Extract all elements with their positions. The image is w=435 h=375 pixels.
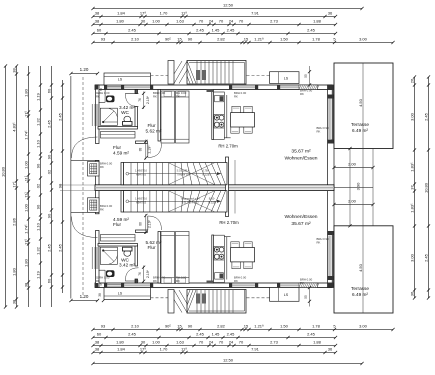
kitchen west wall upper bbox=[212, 90, 214, 140]
dining chairs lower bbox=[232, 262, 240, 269]
toilet lower bbox=[124, 250, 131, 256]
svg-text:3.90: 3.90 bbox=[356, 182, 361, 191]
svg-text:38: 38 bbox=[95, 11, 100, 16]
svg-text:3.00: 3.00 bbox=[410, 112, 415, 121]
svg-text:24: 24 bbox=[209, 340, 214, 345]
left wall window frame upper bbox=[91, 104, 93, 126]
svg-text:Flur: Flur bbox=[113, 222, 122, 227]
right dimension column: 26 3.00 1.83 37 1.83 3.00 36 bbox=[414, 77, 416, 298]
svg-text:RK: RK bbox=[96, 94, 100, 98]
svg-text:HB47/53: HB47/53 bbox=[136, 173, 147, 177]
svg-text:60: 60 bbox=[47, 88, 52, 93]
svg-text:70: 70 bbox=[239, 340, 244, 345]
svg-text:1.20: 1.20 bbox=[80, 294, 89, 299]
svg-text:RH 2.70m: RH 2.70m bbox=[219, 220, 239, 225]
svg-text:11¹: 11¹ bbox=[24, 175, 29, 181]
svg-text:4.83⁵: 4.83⁵ bbox=[12, 122, 17, 132]
svg-text:90: 90 bbox=[58, 183, 63, 188]
svg-text:90: 90 bbox=[47, 154, 52, 159]
svg-text:10.80: 10.80 bbox=[424, 182, 429, 193]
terrace lower bbox=[334, 226, 393, 313]
svg-text:1.45: 1.45 bbox=[212, 28, 221, 33]
svg-text:2.45: 2.45 bbox=[424, 253, 429, 262]
top wall pier C bbox=[150, 85, 153, 90]
svg-text:5.62 m²: 5.62 m² bbox=[146, 129, 162, 134]
dashed boundary line (left strip) bbox=[82, 77, 84, 298]
svg-text:15: 15 bbox=[244, 37, 249, 42]
dim 55 bottom-right bbox=[309, 288, 311, 307]
svg-text:90⁵: 90⁵ bbox=[165, 324, 171, 329]
left dimension column 10.80 overall bbox=[5, 66, 7, 307]
left wall hatched window box upper bbox=[88, 162, 100, 177]
alcove box top-right bbox=[270, 72, 299, 84]
left wall window glazing upper bbox=[96, 104, 98, 126]
svg-text:65: 65 bbox=[99, 282, 103, 286]
svg-text:17¹: 17¹ bbox=[24, 238, 29, 244]
svg-text:RK: RK bbox=[100, 165, 104, 169]
washbasin lower bbox=[106, 270, 115, 277]
party wall axis extension left bbox=[60, 184, 95, 186]
svg-text:93: 93 bbox=[101, 324, 106, 329]
right dimension column: 2.45 10.80 2.45 bbox=[428, 77, 430, 298]
alcove box bottom-right bbox=[270, 288, 299, 302]
left exterior wall lower segment bbox=[96, 231, 100, 288]
left exterior wall middle segment bbox=[96, 161, 100, 214]
WC south wall upper bbox=[98, 127, 138, 130]
svg-text:60: 60 bbox=[97, 332, 102, 337]
left dimension column 4: 1.19 1.32 1.10 90 02 ... bbox=[40, 66, 42, 307]
outside stair post top bbox=[168, 61, 174, 85]
kitchen counter upper bbox=[214, 92, 225, 139]
svg-text:1.21⁸: 1.21⁸ bbox=[254, 37, 264, 42]
svg-text:88: 88 bbox=[139, 222, 143, 226]
svg-text:90: 90 bbox=[47, 213, 52, 218]
svg-text:Wohnen/Essen: Wohnen/Essen bbox=[284, 214, 317, 220]
svg-text:2.45: 2.45 bbox=[58, 112, 63, 121]
svg-text:1.20: 1.20 bbox=[80, 67, 89, 72]
svg-text:2.45: 2.45 bbox=[196, 28, 205, 33]
bottom wall pier A bbox=[104, 283, 107, 288]
svg-text:B.02⁵: B.02⁵ bbox=[209, 197, 215, 201]
dim 55 top-right bbox=[309, 66, 311, 85]
svg-text:1.19: 1.19 bbox=[36, 92, 41, 101]
svg-text:6.49 m²: 6.49 m² bbox=[352, 292, 368, 297]
dimension row C' (bottom): 38 1.80 30 1.00 1.63 70 24 70 24 70 2.73 1.88 bbox=[93, 345, 336, 347]
WC door lower bbox=[125, 280, 138, 282]
svg-text:LS: LS bbox=[284, 77, 289, 81]
svg-text:17⁸: 17⁸ bbox=[140, 11, 146, 16]
top wall pier D bbox=[229, 85, 232, 90]
kitchen sink upper bbox=[215, 95, 224, 101]
svg-text:1.HBST16: 1.HBST16 bbox=[135, 197, 148, 201]
svg-text:1.50: 1.50 bbox=[280, 324, 289, 329]
corridor east wall upper bbox=[158, 90, 161, 142]
svg-text:1.70: 1.70 bbox=[160, 347, 169, 352]
svg-text:2.19⁵: 2.19⁵ bbox=[146, 269, 150, 278]
svg-text:88: 88 bbox=[139, 148, 143, 152]
washbasin niche wall upper bbox=[104, 90, 106, 103]
corridor east wall lower bbox=[158, 232, 161, 284]
svg-text:30: 30 bbox=[141, 340, 146, 345]
entry door arc lower bbox=[72, 217, 98, 238]
svg-text:76: 76 bbox=[138, 98, 142, 102]
svg-text:B.32B: B.32B bbox=[202, 173, 209, 177]
svg-text:11⁸: 11⁸ bbox=[181, 11, 187, 16]
top wall entrance door section bbox=[107, 86, 121, 88]
svg-text:2.45: 2.45 bbox=[227, 332, 236, 337]
left dimension column 3: 1.80 17 1.74 1.00 11 ... 38 bbox=[28, 66, 30, 307]
svg-text:38: 38 bbox=[12, 299, 17, 304]
wardrobe b lower bbox=[176, 232, 190, 284]
svg-text:RK: RK bbox=[153, 279, 157, 283]
svg-text:10.80: 10.80 bbox=[1, 166, 6, 177]
svg-text:2.45: 2.45 bbox=[307, 28, 316, 33]
bottom wall pier B bbox=[121, 283, 124, 288]
stair landing rail upper bbox=[234, 160, 236, 185]
svg-text:1.88: 1.88 bbox=[313, 19, 322, 24]
top wall window 2 bbox=[232, 86, 255, 88]
top wall pier A bbox=[104, 85, 107, 90]
svg-text:2.00: 2.00 bbox=[348, 162, 357, 167]
corridor south wall upper bbox=[136, 141, 148, 144]
svg-text:02: 02 bbox=[36, 183, 41, 188]
WC east wall lower bbox=[135, 246, 138, 267]
left wall hatched window box lower bbox=[88, 198, 100, 213]
garden boundary mid line bbox=[334, 187, 373, 189]
shower lower bbox=[100, 247, 117, 264]
hall closet lower bbox=[101, 235, 136, 242]
washbasin niche wall lower bbox=[104, 270, 106, 283]
wardrobe b upper bbox=[176, 91, 190, 143]
svg-text:55: 55 bbox=[304, 74, 308, 78]
svg-text:1.00: 1.00 bbox=[152, 19, 161, 24]
dimension row total width 12.50 (bottom) bbox=[93, 363, 362, 365]
svg-text:LS: LS bbox=[118, 292, 123, 296]
dimension row D' (bottom): 60 2.45 2.45 1.45 2.45 2.45 bbox=[93, 337, 336, 339]
dashed overhang line top b bbox=[247, 75, 270, 77]
svg-text:2.45: 2.45 bbox=[58, 243, 63, 252]
svg-text:15: 15 bbox=[177, 37, 182, 42]
svg-text:7.91: 7.91 bbox=[251, 11, 260, 16]
bottom wall entrance door section bbox=[107, 284, 121, 286]
svg-text:17⁵: 17⁵ bbox=[12, 181, 17, 187]
WC north wall lower bbox=[98, 244, 138, 247]
svg-text:Flur: Flur bbox=[113, 145, 122, 150]
svg-text:3.00: 3.00 bbox=[359, 37, 368, 42]
interior dim corridor door lower bbox=[145, 214, 147, 234]
svg-text:RK: RK bbox=[300, 92, 304, 96]
corridor door lower bbox=[147, 216, 149, 230]
svg-text:11¹: 11¹ bbox=[24, 192, 29, 198]
left dimension column 6: 2.45 2.45 bbox=[62, 80, 64, 293]
right wall pier hatch upper a bbox=[328, 95, 335, 99]
svg-text:1.80: 1.80 bbox=[116, 19, 125, 24]
bottom wall hatched section bbox=[299, 283, 318, 288]
svg-text:WC: WC bbox=[121, 257, 129, 262]
terrace upper bbox=[334, 63, 393, 149]
svg-text:Treppenlauf s.§4: Treppenlauf s.§4 bbox=[180, 197, 200, 201]
dimension row B' (bottom): 38 1.84 17_8 1.70 11_8 7.91 36 bbox=[93, 352, 336, 354]
bottom wall pier C bbox=[150, 283, 153, 288]
svg-text:35.67 m²: 35.67 m² bbox=[291, 221, 311, 227]
right wall glazing upper bbox=[328, 98, 331, 140]
svg-text:HB47/53: HB47/53 bbox=[136, 201, 147, 205]
svg-text:36: 36 bbox=[328, 11, 333, 16]
svg-text:1.80: 1.80 bbox=[12, 267, 17, 276]
garden dim line 2.00 lower bbox=[334, 204, 373, 206]
svg-text:LS: LS bbox=[118, 78, 123, 82]
bottom wall window 1 bbox=[125, 284, 151, 286]
svg-text:26: 26 bbox=[410, 78, 415, 83]
svg-text:3.00: 3.00 bbox=[410, 253, 415, 262]
stair west wall lower bbox=[121, 191, 124, 212]
svg-text:38: 38 bbox=[24, 282, 29, 287]
svg-text:90⁵: 90⁵ bbox=[165, 37, 171, 42]
svg-text:2.19⁵: 2.19⁵ bbox=[148, 219, 152, 228]
svg-text:02: 02 bbox=[47, 169, 52, 174]
dining table upper bbox=[231, 113, 255, 127]
right wall glazing lower bbox=[328, 236, 331, 278]
svg-text:RK: RK bbox=[234, 279, 238, 283]
left exterior wall upper segment bbox=[96, 85, 100, 144]
svg-text:1.84: 1.84 bbox=[117, 11, 126, 16]
svg-text:LS: LS bbox=[284, 293, 289, 297]
dimension row E' (bottom): 93 2.10 90_5 15 90 2.82 15 1.21_8 1.50 1.78 5 3.00 bbox=[93, 329, 393, 331]
boundary gray line (left strip) bbox=[70, 76, 72, 299]
svg-text:2.86: 2.86 bbox=[12, 217, 17, 226]
svg-text:1.45: 1.45 bbox=[212, 332, 221, 337]
svg-text:RK: RK bbox=[234, 94, 238, 98]
outside stair risers top bbox=[196, 61, 198, 84]
svg-text:35.67 m²: 35.67 m² bbox=[291, 148, 311, 154]
svg-text:2.19⁵: 2.19⁵ bbox=[148, 145, 152, 154]
svg-text:1.50: 1.50 bbox=[280, 37, 289, 42]
wardrobe a upper bbox=[161, 91, 175, 143]
svg-text:Terrasse: Terrasse bbox=[351, 286, 369, 291]
svg-text:WC: WC bbox=[121, 110, 129, 115]
entry threshold upper bbox=[71, 159, 99, 161]
left wall window glazing lower bbox=[96, 247, 98, 269]
washbasin upper bbox=[106, 96, 115, 103]
svg-text:Treppe 14: Treppe 14 bbox=[177, 173, 189, 177]
garden dim line 2.00 upper bbox=[334, 167, 373, 169]
svg-text:7.91: 7.91 bbox=[251, 347, 260, 352]
svg-text:Flur: Flur bbox=[147, 245, 156, 250]
svg-text:1.74⁵: 1.74⁵ bbox=[24, 224, 29, 234]
svg-text:1.80: 1.80 bbox=[24, 258, 29, 267]
svg-text:38: 38 bbox=[12, 68, 17, 73]
svg-text:1.32: 1.32 bbox=[36, 117, 41, 126]
svg-text:1.63: 1.63 bbox=[176, 340, 185, 345]
svg-text:RK: RK bbox=[317, 240, 321, 244]
svg-text:60: 60 bbox=[97, 28, 102, 33]
svg-text:90: 90 bbox=[188, 324, 193, 329]
svg-text:Wohnen/Essen: Wohnen/Essen bbox=[284, 156, 317, 162]
svg-text:2.45: 2.45 bbox=[128, 332, 137, 337]
top wall pier B bbox=[121, 85, 124, 90]
top wall corner block R bbox=[328, 85, 335, 90]
svg-text:1.10: 1.10 bbox=[36, 139, 41, 148]
top wall pier E bbox=[255, 85, 258, 90]
kitchen west wall lower bbox=[212, 235, 214, 283]
svg-text:3.00: 3.00 bbox=[359, 324, 368, 329]
top wall window 1 bbox=[125, 86, 151, 88]
svg-text:2.45: 2.45 bbox=[227, 28, 236, 33]
interior dim WC door upper bbox=[143, 92, 145, 110]
WC door upper bbox=[125, 93, 138, 95]
bottom wall pier D bbox=[229, 283, 232, 288]
shower upper bbox=[100, 108, 117, 125]
svg-text:2.82: 2.82 bbox=[217, 324, 226, 329]
entrance alcove box bottom-left bbox=[104, 288, 151, 300]
entry door arc upper bbox=[72, 137, 98, 158]
kitchen hob upper bbox=[214, 115, 224, 129]
svg-text:2.19⁵: 2.19⁵ bbox=[146, 95, 150, 104]
svg-text:12.50: 12.50 bbox=[223, 3, 234, 8]
svg-text:1.10: 1.10 bbox=[36, 222, 41, 231]
svg-text:3.42 m²: 3.42 m² bbox=[119, 263, 135, 268]
svg-text:2.73: 2.73 bbox=[270, 340, 279, 345]
bottom wall corner L bbox=[95, 283, 98, 288]
svg-text:37: 37 bbox=[410, 185, 415, 190]
svg-text:1.32: 1.32 bbox=[36, 246, 41, 255]
dashed overhang line bottom b bbox=[247, 297, 270, 299]
svg-text:17⁸: 17⁸ bbox=[140, 347, 146, 352]
svg-text:4.59 m²: 4.59 m² bbox=[113, 150, 129, 155]
svg-text:70: 70 bbox=[219, 19, 224, 24]
party wall bbox=[95, 185, 334, 191]
svg-text:1.HBST16: 1.HBST16 bbox=[135, 169, 148, 173]
svg-text:2.45: 2.45 bbox=[307, 332, 316, 337]
svg-text:B.32B: B.32B bbox=[208, 201, 215, 205]
interior dim corridor door upper bbox=[145, 140, 147, 160]
svg-text:38: 38 bbox=[98, 293, 102, 297]
dimension row B (top): 38 1.84 17_8 1.70 11_8 7.91 36 bbox=[93, 16, 336, 18]
svg-text:1.19: 1.19 bbox=[36, 270, 41, 279]
svg-text:65: 65 bbox=[99, 88, 103, 92]
svg-text:70: 70 bbox=[199, 340, 204, 345]
svg-text:24: 24 bbox=[229, 19, 234, 24]
svg-text:15: 15 bbox=[177, 324, 182, 329]
svg-text:Terrasse: Terrasse bbox=[351, 122, 369, 127]
stair east wall stub bbox=[226, 157, 229, 217]
svg-text:1.88: 1.88 bbox=[313, 340, 322, 345]
svg-text:1.00: 1.00 bbox=[152, 340, 161, 345]
wardrobe a lower bbox=[161, 232, 175, 284]
svg-text:17B⁵: 17B⁵ bbox=[203, 169, 209, 173]
svg-text:11⁸: 11⁸ bbox=[181, 347, 187, 352]
svg-text:2.45: 2.45 bbox=[47, 119, 52, 128]
svg-text:38: 38 bbox=[95, 347, 100, 352]
kitchen counter lower bbox=[214, 235, 225, 282]
svg-text:S.01 10B.4: S.01 10B.4 bbox=[177, 169, 190, 173]
svg-text:RK: RK bbox=[96, 279, 100, 283]
bottom wall window 3 bbox=[280, 284, 299, 286]
svg-text:1.84: 1.84 bbox=[117, 347, 126, 352]
toilet upper bbox=[124, 116, 131, 122]
svg-text:60: 60 bbox=[47, 278, 52, 283]
terrace center line bbox=[362, 63, 364, 313]
left wall window frame lower bbox=[91, 247, 93, 269]
svg-text:70: 70 bbox=[219, 340, 224, 345]
svg-text:1.80: 1.80 bbox=[24, 88, 29, 97]
svg-text:Flur: Flur bbox=[147, 123, 156, 128]
svg-text:1.80: 1.80 bbox=[116, 340, 125, 345]
interior dim WC door lower bbox=[143, 266, 145, 284]
svg-text:2.00: 2.00 bbox=[348, 199, 357, 204]
top exterior wall bbox=[95, 85, 332, 90]
svg-text:2.45: 2.45 bbox=[128, 28, 137, 33]
right wall pier hatch lower b bbox=[328, 276, 335, 280]
right exterior wall bbox=[328, 85, 335, 288]
svg-text:RK: RK bbox=[176, 94, 180, 98]
stair landing rail lower bbox=[234, 191, 236, 214]
svg-text:76: 76 bbox=[138, 272, 142, 276]
top wall pier F bbox=[277, 85, 280, 90]
bottom wall corner block R bbox=[328, 283, 335, 288]
stair west wall upper bbox=[121, 163, 124, 185]
right wall dark band upper bbox=[332, 89, 334, 144]
svg-text:90: 90 bbox=[188, 37, 193, 42]
dashed overhang line top a bbox=[151, 75, 169, 77]
svg-text:15: 15 bbox=[244, 324, 249, 329]
svg-text:24: 24 bbox=[229, 340, 234, 345]
svg-text:93: 93 bbox=[101, 37, 106, 42]
outside stair post bottom bbox=[168, 290, 174, 314]
svg-text:2.73: 2.73 bbox=[270, 19, 279, 24]
WC east wall upper bbox=[135, 107, 138, 128]
svg-text:38: 38 bbox=[95, 19, 100, 24]
svg-text:30: 30 bbox=[141, 19, 146, 24]
svg-text:1.83⁵: 1.83⁵ bbox=[410, 162, 415, 172]
garden vertical dim 3.90 bbox=[349, 149, 351, 226]
outside stair box top bbox=[187, 61, 246, 85]
svg-text:90: 90 bbox=[36, 204, 41, 209]
garden vertical edge line bbox=[372, 149, 374, 226]
hall closet upper bbox=[101, 132, 136, 139]
svg-text:1.78: 1.78 bbox=[312, 324, 321, 329]
kitchen east divider lower bbox=[226, 237, 228, 280]
svg-text:4.50: 4.50 bbox=[358, 263, 363, 272]
right wall pier hatch lower a bbox=[328, 231, 335, 235]
dimension row E (top): 93 2.10 90_5 15 90 2.82 15 1.21_8 1.50 1.78 5 3.00 bbox=[93, 42, 393, 44]
svg-text:24: 24 bbox=[209, 19, 214, 24]
outside stair box bottom bbox=[187, 290, 246, 314]
svg-text:2.82: 2.82 bbox=[217, 37, 226, 42]
svg-text:4.50: 4.50 bbox=[358, 98, 363, 107]
svg-text:RK: RK bbox=[300, 281, 304, 285]
outside stair diagonals top bbox=[174, 61, 187, 84]
svg-text:36: 36 bbox=[410, 291, 415, 296]
entry threshold lower bbox=[71, 211, 99, 213]
svg-text:1.63: 1.63 bbox=[176, 19, 185, 24]
svg-text:RK: RK bbox=[317, 129, 321, 133]
svg-text:1.00: 1.00 bbox=[24, 160, 29, 169]
dimension row D (top): 60 2.45 2.45 1.45 2.45 2.45 bbox=[93, 33, 336, 35]
svg-text:2.45: 2.45 bbox=[196, 332, 205, 337]
outside stair risers bottom bbox=[196, 290, 198, 313]
svg-text:RH 2.70m: RH 2.70m bbox=[218, 143, 238, 148]
svg-text:2.10: 2.10 bbox=[131, 324, 140, 329]
outside stair winders bottom bbox=[187, 290, 196, 313]
dashed overhang line bottom a bbox=[151, 297, 169, 299]
outside stair winders top bbox=[187, 61, 196, 84]
dimension 1.20 (bottom left) bbox=[71, 300, 98, 302]
svg-text:6.49 m²: 6.49 m² bbox=[352, 128, 368, 133]
svg-text:70: 70 bbox=[199, 19, 204, 24]
svg-text:S.01 PB.4 16.2: S.01 PB.4 16.2 bbox=[181, 201, 199, 205]
top wall hatched section bbox=[299, 85, 318, 90]
